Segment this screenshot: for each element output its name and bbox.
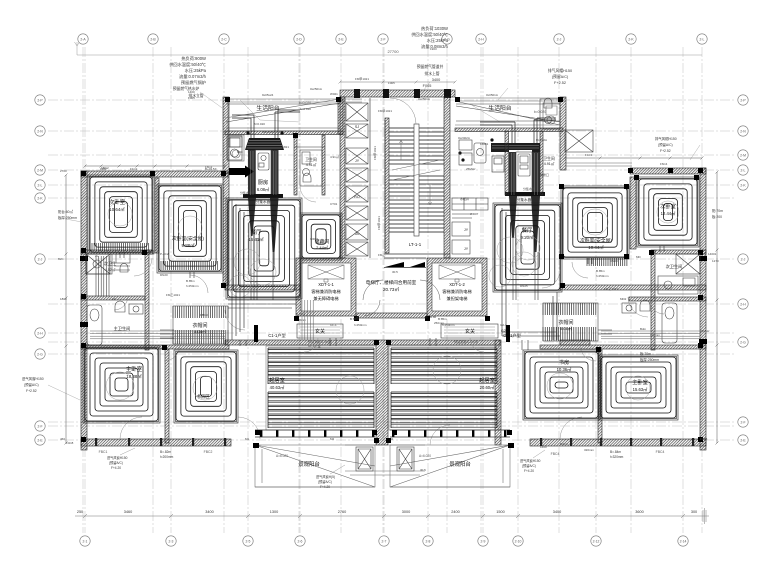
svg-text:XDT-1-1: XDT-1-1 bbox=[318, 282, 334, 287]
svg-text:CT01: CT01 bbox=[330, 202, 338, 206]
balcony top-left outline bbox=[225, 99, 340, 161]
svg-text:(预留A/C): (预留A/C) bbox=[24, 382, 39, 387]
svg-text:2-H: 2-H bbox=[37, 331, 43, 335]
svg-text:0x2501A: 0x2501A bbox=[418, 97, 430, 101]
stair treads lower flight bbox=[389, 176, 444, 232]
svg-text:热负荷:1030W: 热负荷:1030W bbox=[421, 25, 448, 32]
svg-text:300: 300 bbox=[691, 510, 697, 514]
bathroom 次卫生间 left fixtures bbox=[86, 254, 130, 274]
wall bath top left bbox=[81, 250, 153, 254]
svg-text:3400: 3400 bbox=[205, 510, 213, 514]
room 书房区 spiral left bbox=[176, 352, 236, 421]
svg-text:玄关: 玄关 bbox=[315, 328, 325, 335]
svg-text:次卧室: 次卧室 bbox=[660, 202, 676, 210]
wall top center-right (thin) bbox=[455, 98, 565, 101]
svg-text:进气风窗H150: 进气风窗H150 bbox=[107, 455, 128, 460]
svg-text:10.64㎡: 10.64㎡ bbox=[109, 206, 125, 212]
svg-text:分集水器: 分集水器 bbox=[517, 197, 532, 202]
svg-text:排气风帽H150: 排气风帽H150 bbox=[655, 136, 677, 141]
pipe bundle right wing corridor bbox=[601, 331, 700, 339]
svg-text:2-E: 2-E bbox=[338, 37, 344, 41]
svg-text:25MHz: 25MHz bbox=[700, 329, 710, 333]
svg-text:30.5: 30.5 bbox=[392, 270, 398, 274]
svg-text:供回水温度:50/40℃: 供回水温度:50/40℃ bbox=[169, 61, 206, 68]
bathroom 主卫生间 right fixtures bbox=[622, 300, 677, 343]
svg-text:2-1: 2-1 bbox=[83, 539, 88, 543]
living room bottom wall band bbox=[255, 430, 510, 437]
svg-text:2760: 2760 bbox=[338, 510, 346, 514]
grid bubbles bottom row bbox=[80, 536, 688, 546]
svg-text:进气风窗H(5): 进气风窗H(5) bbox=[316, 474, 335, 479]
stair corridor wall bbox=[370, 98, 385, 258]
manifold wedges right bbox=[509, 196, 517, 238]
svg-text:2-F: 2-F bbox=[380, 37, 385, 41]
svg-text:2-H: 2-H bbox=[740, 302, 746, 306]
svg-text:流量:0.07m3/h: 流量:0.07m3/h bbox=[179, 73, 207, 80]
wall living right side bbox=[495, 340, 501, 445]
JY boxes right of core bbox=[452, 222, 470, 254]
wall central spine bbox=[376, 340, 388, 445]
svg-text:3600: 3600 bbox=[635, 510, 643, 514]
svg-text:3460: 3460 bbox=[124, 510, 132, 514]
svg-text:FBC1: FBC1 bbox=[99, 450, 108, 454]
svg-text:h:250mm: h:250mm bbox=[186, 284, 199, 288]
svg-text:FBC2: FBC2 bbox=[204, 450, 213, 454]
svg-text:b=0.020: b=0.020 bbox=[299, 101, 311, 105]
svg-text:2-G: 2-G bbox=[37, 352, 43, 356]
svg-text:预留燃气锅炉: 预留燃气锅炉 bbox=[181, 79, 206, 86]
svg-text:A=6.020: A=6.020 bbox=[276, 454, 288, 458]
pipe runs left of dining bbox=[228, 200, 300, 340]
riser marks on exterior walls bbox=[80, 256, 707, 448]
room 书房 10.36 spiral right bbox=[525, 352, 598, 418]
svg-text:14001: 14001 bbox=[708, 252, 717, 256]
wall right balcony step bbox=[560, 97, 566, 170]
svg-text:进气风窗H150: 进气风窗H150 bbox=[22, 376, 44, 381]
room 储藏间 coil left bbox=[302, 215, 340, 258]
svg-text:1300: 1300 bbox=[270, 510, 278, 514]
svg-text:餐厅: 餐厅 bbox=[251, 228, 262, 236]
svg-text:2-E: 2-E bbox=[740, 438, 746, 442]
svg-text:FM甲1021: FM甲1021 bbox=[378, 109, 392, 113]
svg-text:2700: 2700 bbox=[60, 169, 67, 173]
svg-text:F+2.52: F+2.52 bbox=[554, 81, 566, 85]
elevator shaft XDT-1-2 walls bbox=[427, 258, 487, 316]
svg-text:1400: 1400 bbox=[540, 445, 547, 449]
dim end symbol right bbox=[700, 508, 709, 524]
wall master top left bbox=[81, 345, 229, 349]
manifold collector bar right bbox=[505, 192, 545, 196]
closet 衣帽间 right comb bbox=[543, 303, 596, 315]
wall bath divider right block bbox=[540, 131, 543, 195]
svg-text:h:320mm: h:320mm bbox=[610, 455, 624, 459]
wall master top right bbox=[540, 345, 706, 349]
annotation block top-center bbox=[411, 25, 448, 50]
manifold wedges left bbox=[248, 198, 256, 236]
svg-text:2-M: 2-M bbox=[37, 168, 43, 172]
manifold riser strips right bbox=[509, 152, 516, 196]
svg-text:4.91㎡: 4.91㎡ bbox=[330, 154, 339, 159]
door arcs wing corridors bbox=[114, 262, 664, 314]
svg-text:2-9: 2-9 bbox=[481, 539, 486, 543]
room 餐厅 16.41 coil bbox=[228, 200, 300, 297]
svg-text:起居室: 起居室 bbox=[479, 376, 495, 384]
manifold band right (dark) bbox=[491, 143, 540, 152]
svg-text:阳:70m: 阳:70m bbox=[712, 208, 723, 213]
svg-text:2-A: 2-A bbox=[80, 37, 86, 41]
manifold fan left (dark trapezoid) bbox=[245, 138, 284, 150]
living room left serpentine lower bbox=[268, 392, 374, 428]
right margin notes bbox=[640, 136, 723, 362]
room 主卧室 15.63 spiral right bbox=[601, 357, 676, 418]
wall top of left wing bbox=[81, 171, 228, 177]
svg-text:景观阳台: 景观阳台 bbox=[298, 460, 320, 468]
svg-text:餐厅: 餐厅 bbox=[522, 226, 533, 234]
svg-text:F+4.20: F+4.20 bbox=[320, 485, 330, 489]
svg-text:8.08㎡: 8.08㎡ bbox=[560, 325, 572, 331]
wall stair core top bbox=[340, 90, 455, 97]
shower cubicle left bath bbox=[86, 254, 130, 274]
svg-text:30.5: 30.5 bbox=[420, 468, 426, 472]
svg-text:次卧室: 次卧室 bbox=[109, 198, 126, 206]
svg-text:B2C: B2C bbox=[58, 257, 65, 261]
svg-text:0x0501A: 0x0501A bbox=[486, 93, 498, 97]
top datum line bbox=[75, 42, 703, 55]
svg-text:2-7: 2-7 bbox=[382, 539, 387, 543]
svg-text:DN25: DN25 bbox=[240, 284, 248, 288]
svg-text:B:85m: B:85m bbox=[438, 317, 447, 321]
svg-text:P-4C2: P-4C2 bbox=[160, 252, 169, 256]
manifold riser strips left bbox=[248, 150, 256, 196]
svg-text:M2: M2 bbox=[330, 437, 334, 441]
svg-text:10.36㎡: 10.36㎡ bbox=[557, 366, 572, 372]
wall bath mid right bbox=[629, 297, 706, 301]
svg-text:0x2501A: 0x2501A bbox=[310, 87, 322, 91]
window piers right living bbox=[392, 430, 506, 437]
svg-text:WD01: WD01 bbox=[310, 237, 319, 241]
svg-text:2-N: 2-N bbox=[740, 129, 746, 133]
wall bath right left wing bbox=[145, 250, 149, 350]
svg-text:W021: W021 bbox=[330, 92, 338, 96]
svg-text:Bdm3: Bdm3 bbox=[560, 442, 568, 446]
bathroom top-right fixtures bbox=[540, 98, 560, 129]
svg-text:主卧室: 主卧室 bbox=[126, 365, 143, 373]
svg-text:1500: 1500 bbox=[496, 510, 504, 514]
svg-text:DN20: DN20 bbox=[160, 273, 168, 277]
svg-text:2-8: 2-8 bbox=[426, 539, 431, 543]
svg-text:JY: JY bbox=[472, 257, 476, 261]
svg-text:h:250mm: h:250mm bbox=[442, 323, 455, 327]
svg-text:K821: K821 bbox=[282, 145, 289, 149]
svg-text:1903: 1903 bbox=[430, 47, 437, 51]
svg-text:2.44㎡: 2.44㎡ bbox=[316, 244, 328, 250]
svg-text:预留钢板C.4㎡用: 预留钢板C.4㎡用 bbox=[454, 339, 478, 344]
black arrow into kitchen bbox=[229, 166, 254, 178]
svg-text:C1-1户型: C1-1户型 bbox=[268, 332, 285, 339]
wall hall/living right bbox=[388, 340, 500, 345]
wall bottom of right wing bbox=[530, 439, 706, 446]
svg-text:20.60㎡: 20.60㎡ bbox=[480, 384, 495, 390]
svg-text:卫生间: 卫生间 bbox=[305, 157, 317, 162]
svg-text:主卧室: 主卧室 bbox=[632, 378, 648, 386]
living room left serpentine upper bbox=[268, 348, 374, 384]
svg-text:F005: F005 bbox=[188, 96, 195, 100]
svg-text:2-J: 2-J bbox=[38, 257, 43, 261]
svg-text:2-K: 2-K bbox=[740, 183, 746, 187]
step edge center bottom bbox=[345, 445, 425, 475]
svg-text:18.38㎡: 18.38㎡ bbox=[126, 373, 142, 379]
svg-text:3400: 3400 bbox=[432, 78, 440, 82]
svg-text:h:250mm: h:250mm bbox=[596, 274, 609, 278]
extra corner columns right wing bbox=[559, 175, 699, 259]
comb band below room2 bbox=[161, 261, 218, 270]
svg-text:2-P: 2-P bbox=[740, 98, 746, 102]
wall kitchen/bath divider left bbox=[294, 135, 297, 195]
riser dots bbox=[246, 131, 493, 161]
svg-text:40.63㎡: 40.63㎡ bbox=[270, 384, 285, 390]
svg-text:15.63㎡: 15.63㎡ bbox=[633, 386, 648, 392]
manifold strip hairlines bbox=[251, 151, 538, 195]
svg-text:FM甲1021: FM甲1021 bbox=[373, 146, 377, 160]
dim line above stair core bbox=[339, 81, 457, 84]
svg-text:2-L: 2-L bbox=[38, 183, 43, 187]
bottom vent notes bbox=[107, 450, 624, 489]
svg-text:FBC4: FBC4 bbox=[656, 450, 665, 454]
closet 衣帽间 left comb bbox=[173, 306, 228, 318]
dim line above left wing bbox=[84, 165, 227, 168]
black wall stubs entry halls bbox=[254, 325, 510, 342]
svg-text:阳台:60㎡: 阳台:60㎡ bbox=[58, 209, 73, 214]
svg-text:h:250mm: h:250mm bbox=[354, 323, 367, 327]
svg-text:B.85m: B.85m bbox=[296, 312, 305, 316]
svg-text:9.20㎡: 9.20㎡ bbox=[521, 234, 535, 240]
svg-text:水压:25kPa: 水压:25kPa bbox=[427, 37, 449, 44]
svg-text:维修口: 维修口 bbox=[540, 172, 549, 177]
svg-text:B.86: B.86 bbox=[430, 315, 437, 319]
left margin notes bbox=[22, 209, 77, 393]
pipe drop from manifolds to living rooms bbox=[251, 232, 538, 300]
window mullions bottom right wing bbox=[540, 438, 694, 446]
room 餐厅 9.20 coil right bbox=[495, 205, 560, 290]
wall balcony right end left block bbox=[338, 99, 343, 134]
svg-text:2-G: 2-G bbox=[740, 340, 746, 344]
svg-text:320mm: 320mm bbox=[584, 448, 595, 452]
svg-text:2-F: 2-F bbox=[740, 420, 745, 424]
room 次卧室安全屋 10.44 spiral right bbox=[563, 188, 627, 257]
svg-text:书房区: 书房区 bbox=[196, 393, 210, 400]
svg-text:F4C8: F4C8 bbox=[700, 437, 708, 441]
wall bottom of left wing bbox=[81, 439, 231, 446]
table circles dining left bbox=[229, 237, 536, 404]
wall right hall bbox=[560, 340, 590, 345]
svg-text:2-E: 2-E bbox=[37, 438, 43, 442]
svg-text:FbC2: FbC2 bbox=[205, 165, 213, 169]
svg-text:2-K: 2-K bbox=[37, 196, 43, 200]
front room walls bbox=[384, 254, 450, 258]
pipe runs left wing vertical bbox=[96, 256, 109, 296]
living room right serpentine lower bbox=[391, 392, 497, 428]
svg-text:0x2402A: 0x2402A bbox=[458, 136, 470, 140]
svg-text:(预留A/C): (预留A/C) bbox=[658, 142, 673, 147]
cabinet row right of core bbox=[452, 198, 488, 218]
svg-text:DN20: DN20 bbox=[610, 259, 618, 263]
svg-text:1800: 1800 bbox=[60, 297, 67, 301]
window piers left living bbox=[260, 430, 374, 437]
svg-text:1402: 1402 bbox=[100, 167, 107, 171]
room borders bbox=[83, 175, 699, 423]
svg-text:460: 460 bbox=[60, 437, 65, 441]
svg-text:320mm: 320mm bbox=[650, 333, 661, 337]
svg-text:G2-1: G2-1 bbox=[500, 323, 507, 327]
svg-text:(预留A/C): (预留A/C) bbox=[318, 479, 332, 484]
stair stringer bbox=[414, 124, 419, 236]
wall right wing mid bbox=[560, 285, 706, 290]
svg-text:兼无障碍电梯: 兼无障碍电梯 bbox=[313, 295, 338, 302]
svg-text:2L: 2L bbox=[95, 254, 99, 258]
kitchen left interior bbox=[256, 150, 272, 196]
connection pipes rooms right bbox=[430, 246, 664, 350]
balcony railing top-left bbox=[226, 103, 340, 128]
svg-text:2-3: 2-3 bbox=[169, 539, 174, 543]
balcony top-right outline bbox=[455, 101, 560, 129]
perimeter small texts bbox=[58, 47, 719, 472]
window mullions bottom left wing bbox=[95, 438, 226, 446]
svg-text:(预留A/C): (预留A/C) bbox=[109, 460, 123, 465]
svg-text:3400: 3400 bbox=[553, 510, 561, 514]
svg-text:Bdm: Bdm bbox=[640, 327, 647, 331]
grid bubbles right column bbox=[738, 95, 748, 445]
svg-text:27700: 27700 bbox=[387, 49, 399, 54]
svg-text:XDT-1-2: XDT-1-2 bbox=[449, 282, 465, 287]
wall kitchen left divider right block bbox=[505, 131, 509, 195]
svg-text:6.08㎡: 6.08㎡ bbox=[257, 186, 270, 192]
comb band below room1 bbox=[92, 243, 149, 251]
svg-text:FM乙: FM乙 bbox=[378, 252, 385, 257]
svg-text:JY: JY bbox=[464, 247, 469, 251]
manifold collector bar left bbox=[243, 194, 283, 198]
wall left exterior bbox=[81, 171, 87, 450]
svg-text:厨房: 厨房 bbox=[258, 178, 268, 186]
dimension line bottom bbox=[75, 514, 700, 518]
grid bubbles left column bbox=[35, 95, 45, 445]
svg-text:FM甲1021: FM甲1021 bbox=[355, 77, 369, 81]
leader notes top bbox=[173, 64, 572, 98]
elevator shaft XDT-1-1 walls bbox=[296, 258, 356, 316]
svg-text:FBC3: FBC3 bbox=[200, 313, 208, 317]
wall between right bedrooms bbox=[630, 177, 636, 249]
svg-text:书房: 书房 bbox=[559, 358, 569, 366]
svg-text:1400: 1400 bbox=[188, 90, 195, 94]
furniture circles bbox=[106, 201, 679, 400]
bathroom 次卫生间 right fixtures bbox=[658, 276, 698, 294]
room 次卧室 10.64 spiral bbox=[90, 177, 152, 252]
svg-text:B.85m: B.85m bbox=[596, 269, 605, 273]
svg-text:分集水器: 分集水器 bbox=[523, 186, 535, 191]
wall top center-left (balcony front, thin) bbox=[225, 99, 362, 102]
svg-text:RO: RO bbox=[354, 195, 360, 199]
svg-text:F1C3: F1C3 bbox=[585, 153, 593, 157]
clutter texts center bbox=[66, 77, 708, 445]
svg-text:JY: JY bbox=[464, 228, 469, 232]
wall bath mid left bbox=[81, 296, 145, 300]
svg-text:FM甲1021: FM甲1021 bbox=[377, 216, 381, 230]
svg-text:2-10: 2-10 bbox=[515, 539, 522, 543]
svg-text:2-14: 2-14 bbox=[680, 539, 687, 543]
svg-text:12.44㎡: 12.44㎡ bbox=[661, 210, 676, 216]
pipe runs right center vertical bbox=[502, 208, 560, 340]
wall hall/living left bbox=[225, 340, 376, 345]
svg-text:2-F: 2-F bbox=[37, 424, 42, 428]
svg-text:次卫生间: 次卫生间 bbox=[666, 263, 683, 270]
svg-text:次卧室(安全屋): 次卧室(安全屋) bbox=[172, 235, 204, 242]
svg-text:生活阳台: 生活阳台 bbox=[256, 104, 279, 112]
svg-text:F+2.52: F+2.52 bbox=[660, 149, 671, 153]
room 次卧室安全屋 9.88 spiral bbox=[159, 186, 221, 271]
balcony railing top-right bbox=[456, 104, 560, 122]
dim ticks right edge bbox=[716, 171, 719, 445]
entrance black triangles bbox=[385, 262, 425, 267]
wall top of right wing thin window band bbox=[565, 163, 632, 166]
wall bath left right wing bbox=[651, 250, 655, 350]
svg-text:2-M: 2-M bbox=[740, 153, 746, 157]
svg-text:B.85m: B.85m bbox=[186, 279, 195, 283]
svg-text:14001: 14001 bbox=[480, 142, 489, 146]
svg-text:9x05x24: 9x05x24 bbox=[262, 93, 274, 97]
svg-text:b=0.020: b=0.020 bbox=[300, 107, 311, 111]
room 主卧室 18.38 spiral bbox=[85, 348, 158, 421]
wall master/study left bbox=[165, 349, 169, 443]
dishwasher boxes right kitchen top bbox=[492, 156, 504, 172]
entry hall right 玄关 bbox=[441, 324, 498, 338]
svg-text:预留燃气热水炉: 预留燃气热水炉 bbox=[173, 86, 200, 91]
wall top of right wing bbox=[630, 168, 706, 174]
svg-text:次卧室(安全屋): 次卧室(安全屋) bbox=[580, 237, 612, 244]
svg-text:CF-1: CF-1 bbox=[330, 323, 337, 327]
columns stair core top bbox=[354, 89, 451, 98]
svg-text:B=.84m: B=.84m bbox=[610, 450, 621, 454]
appliance boxes right corridor bbox=[459, 140, 486, 165]
grid bubbles top row bbox=[78, 34, 707, 44]
svg-text:2-L: 2-L bbox=[741, 168, 746, 172]
svg-text:兼担架电梯: 兼担架电梯 bbox=[447, 295, 468, 302]
svg-text:F1C2: F1C2 bbox=[130, 167, 138, 171]
wall between bedrooms left bbox=[155, 178, 159, 253]
wall left wing to balcony step bbox=[223, 97, 229, 173]
boiler cabinet right bbox=[516, 152, 532, 196]
balcony bottom-left 景观阳台 bbox=[255, 445, 375, 487]
svg-text:M1: M1 bbox=[245, 437, 249, 441]
svg-text:衣帽间: 衣帽间 bbox=[558, 319, 573, 326]
svg-text:(预留A/C): (预留A/C) bbox=[552, 74, 569, 79]
svg-text:F+4.20: F+4.20 bbox=[524, 469, 534, 473]
svg-text:6=0.020: 6=0.020 bbox=[254, 122, 265, 126]
svg-text:4.91㎡: 4.91㎡ bbox=[544, 161, 555, 166]
door arcs bbox=[120, 186, 648, 445]
feed pipes left manifold bbox=[232, 110, 300, 138]
svg-text:4.91㎡: 4.91㎡ bbox=[306, 162, 317, 167]
misc leader lines bbox=[48, 82, 700, 400]
dim line above right wing bbox=[564, 157, 704, 160]
svg-text:20.73㎡: 20.73㎡ bbox=[383, 286, 399, 292]
svg-text:卫生间: 卫生间 bbox=[543, 156, 555, 161]
service shafts strip SJ/JY/RO/G0 bbox=[346, 103, 368, 256]
svg-text:10.44㎡: 10.44㎡ bbox=[588, 244, 604, 250]
comb band below right room bbox=[587, 258, 627, 266]
svg-text:1F: 1F bbox=[112, 297, 116, 301]
pipe bundle center vertical left bbox=[302, 300, 313, 340]
svg-text:2-L: 2-L bbox=[700, 37, 705, 41]
svg-text:F6C4: F6C4 bbox=[660, 162, 668, 166]
